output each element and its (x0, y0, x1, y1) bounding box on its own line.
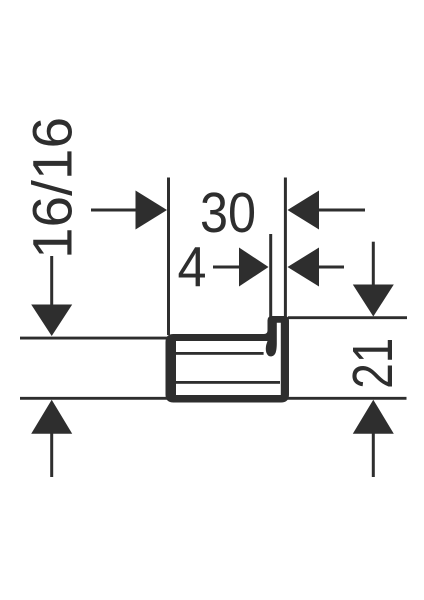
svg-text:21: 21 (341, 338, 405, 389)
profile cross-section (outer body with hook slot, evenodd hole) (166, 316, 290, 403)
extension line right (x=285.4) (284, 178, 287, 318)
dim 30 right arrow (288, 191, 366, 230)
dim 21 up arrow (right bottom) (353, 400, 394, 477)
dim 21 down arrow (right top) (353, 242, 394, 317)
shelf top line right (288, 316, 407, 319)
profile inner line bottom (176, 381, 280, 384)
dim 16 down arrow (left) (31, 256, 72, 336)
extension line middle (x=270.7) (269, 234, 272, 317)
svg-text:4: 4 (178, 236, 207, 300)
wall surface line top-left (20, 337, 167, 340)
wall surface line bottom (20, 397, 407, 400)
svg-text:30: 30 (200, 181, 256, 245)
extension line left (x=168.5) (167, 178, 170, 336)
profile inner line top (176, 352, 264, 355)
dim 16 up arrow (left bottom) (31, 400, 72, 477)
dim 4 left arrow (213, 248, 269, 287)
dim 30 left arrow (91, 191, 167, 230)
dim 4 right arrow (288, 248, 345, 287)
svg-text:16/16: 16/16 (21, 117, 84, 259)
